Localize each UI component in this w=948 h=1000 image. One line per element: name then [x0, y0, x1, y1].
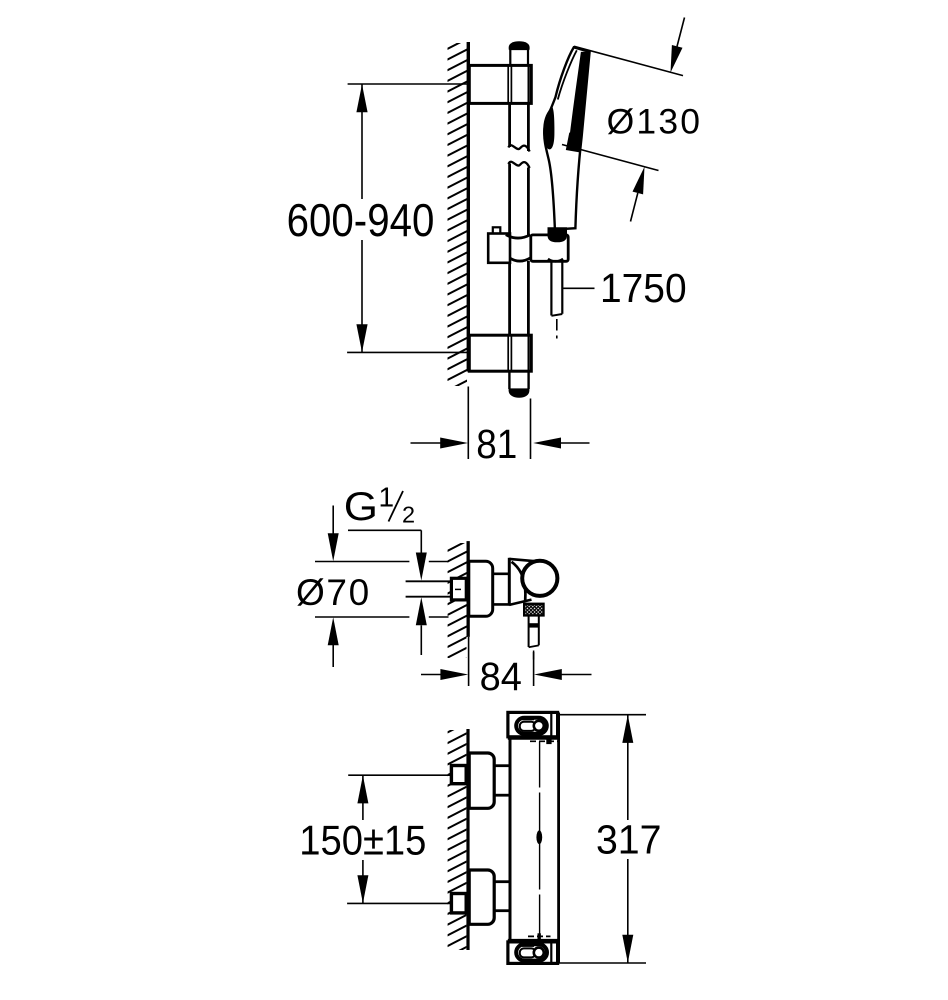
- svg-text:317: 317: [596, 818, 662, 863]
- svg-text:150±15: 150±15: [299, 818, 426, 864]
- svg-text:Ø130: Ø130: [607, 102, 703, 142]
- svg-text:1: 1: [379, 481, 395, 512]
- svg-text:600-940: 600-940: [287, 196, 435, 247]
- svg-text:1750: 1750: [600, 266, 687, 311]
- svg-text:Ø70: Ø70: [296, 572, 371, 613]
- svg-text:G: G: [344, 484, 378, 529]
- svg-text:2: 2: [402, 501, 415, 527]
- svg-text:84: 84: [480, 655, 522, 699]
- svg-text:81: 81: [476, 422, 517, 467]
